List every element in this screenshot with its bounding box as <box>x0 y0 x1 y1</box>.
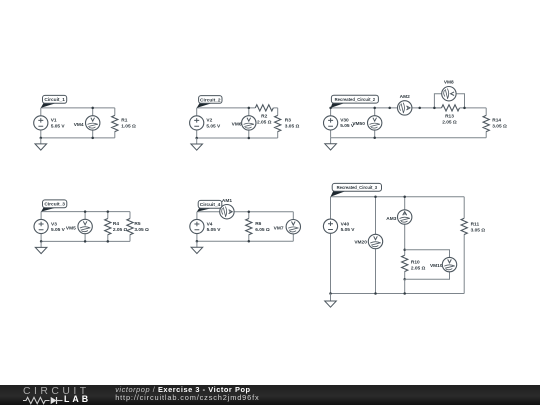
junction V2 bottom <box>195 137 198 140</box>
ground <box>325 138 337 150</box>
label Recreated_Circuit_3 callout box <box>331 191 346 197</box>
svg-text:Circuit_4: Circuit_4 <box>200 202 221 208</box>
junction V1 bottom <box>40 137 43 140</box>
wire R1 leads <box>114 108 116 138</box>
wire R13 left stub <box>434 107 441 109</box>
wire V40 leads <box>330 197 332 294</box>
svg-text:VM50: VM50 <box>352 121 365 127</box>
junction V30 top corner <box>329 107 332 110</box>
voltage source V4 <box>190 219 204 233</box>
junction R10 branch bottom <box>403 292 406 295</box>
svg-text:R2: R2 <box>261 113 267 119</box>
svg-text:VM8: VM8 <box>444 79 454 85</box>
wire R11 leads <box>463 197 465 294</box>
label Circuit_3 callout box <box>41 207 55 211</box>
resistor R5 <box>127 219 133 235</box>
svg-text:VM4: VM4 <box>74 122 84 128</box>
svg-text:VM10: VM10 <box>430 263 443 269</box>
wire R10 to bottom <box>404 279 406 293</box>
svg-text:3.05 Ω: 3.05 Ω <box>492 124 507 130</box>
junction R10 bottom <box>403 278 406 281</box>
wire R3 leads <box>277 108 279 138</box>
junction AM2 right <box>418 107 421 110</box>
wire V30 leads <box>330 108 332 138</box>
ammeter AM2 <box>398 101 412 115</box>
junction VM20 top <box>374 196 377 199</box>
voltage source V3 <box>34 219 48 233</box>
svg-text:AM3: AM3 <box>386 216 396 222</box>
wire bottom C2 <box>197 137 278 139</box>
logo resistor+diode glyph <box>23 396 65 405</box>
svg-text:Circuit_1: Circuit_1 <box>44 97 65 103</box>
wire bottom C3 <box>41 240 130 242</box>
wire top C4 <box>197 211 293 213</box>
wire bottom RC2 <box>331 137 487 139</box>
junction R6 bottom <box>248 240 251 243</box>
junction VM4 top <box>91 107 94 110</box>
svg-text:V1: V1 <box>51 118 57 124</box>
resistor R11 <box>461 218 467 234</box>
resistor R2 <box>255 105 273 111</box>
ground <box>35 241 47 253</box>
junction VM4 bottom <box>91 137 94 140</box>
svg-text:3.05 Ω: 3.05 Ω <box>471 227 486 233</box>
svg-text:VM6: VM6 <box>232 122 242 128</box>
svg-text:VM5: VM5 <box>66 225 76 231</box>
svg-text:Recreated_Circuit_2: Recreated_Circuit_2 <box>335 97 376 102</box>
voltage source V30 <box>324 116 338 130</box>
svg-text:R5: R5 <box>134 221 140 227</box>
resistor R1 <box>112 115 118 131</box>
wire top RC3 <box>331 196 465 198</box>
voltage source V40 <box>323 219 337 233</box>
svg-text:VM7: VM7 <box>274 225 284 231</box>
svg-text:R1: R1 <box>121 117 127 123</box>
voltmeter VM20 <box>368 234 382 248</box>
junction AM3 top <box>403 196 406 199</box>
junction VM5 bottom <box>84 240 87 243</box>
junction VM8 right <box>463 107 466 110</box>
svg-text:AM1: AM1 <box>222 198 232 204</box>
ammeter AM1 <box>220 205 234 219</box>
label Circuit_2 callout box <box>197 103 212 108</box>
voltage source V1 <box>34 116 48 130</box>
svg-text:R11: R11 <box>471 221 480 227</box>
svg-text:R4: R4 <box>113 221 119 227</box>
voltage source V2 <box>190 116 204 130</box>
junction VM50 top <box>373 107 376 110</box>
junction VM20 bottom <box>374 292 377 295</box>
wire V1 leads <box>40 108 42 138</box>
svg-text:V3: V3 <box>51 221 57 227</box>
voltmeter VM10 <box>442 257 456 271</box>
resistor R4 <box>105 219 111 235</box>
wire VM7 leads <box>292 212 294 242</box>
svg-text:5.05 V: 5.05 V <box>206 124 221 130</box>
wire bottom C1 <box>41 137 115 139</box>
svg-text:1.05 Ω: 1.05 Ω <box>121 124 136 130</box>
junction VM6 top <box>248 107 251 110</box>
resistor R6 <box>246 219 252 235</box>
footer text <box>115 386 259 402</box>
svg-text:3.05 Ω: 3.05 Ω <box>134 227 149 233</box>
junction VM50 bottom <box>373 137 376 140</box>
svg-text:AM2: AM2 <box>400 94 410 100</box>
wire R10 leads <box>404 250 406 279</box>
ammeter AM3 <box>398 210 412 224</box>
junction V40 bottom <box>329 292 332 295</box>
svg-text:R13: R13 <box>445 113 454 119</box>
wire AM3 leads <box>404 197 406 250</box>
junction VM5 top <box>84 210 87 213</box>
svg-text:2.05 Ω: 2.05 Ω <box>411 265 426 271</box>
wire R6 leads <box>248 212 250 242</box>
junction AM2 left <box>388 107 391 110</box>
wire VM6 leads <box>248 108 250 138</box>
svg-text:V40: V40 <box>341 221 350 227</box>
voltmeter VM4 <box>86 116 100 130</box>
svg-text:Circuit_3: Circuit_3 <box>44 202 65 208</box>
label Recreated_Circuit_2 callout box <box>331 103 345 108</box>
junction R4 bottom <box>107 240 110 243</box>
wire R14 leads <box>485 108 487 138</box>
junction V3 bottom <box>40 240 43 243</box>
wire VM10 branch <box>405 250 450 279</box>
ground <box>325 294 337 308</box>
ground <box>191 241 203 253</box>
wire VM8 branch <box>434 94 464 108</box>
svg-text:R10: R10 <box>411 259 420 265</box>
wire V2 leads <box>196 108 198 138</box>
wire VM4 leads <box>92 108 94 138</box>
voltmeter VM7 <box>286 220 300 234</box>
junction R4 top <box>107 210 110 213</box>
resistor R14 <box>483 115 489 131</box>
svg-text:5.05 V: 5.05 V <box>51 124 66 130</box>
svg-text:V2: V2 <box>206 118 212 124</box>
wire bottom RC3 <box>331 293 465 295</box>
svg-text:5.05 V: 5.05 V <box>207 227 222 233</box>
voltmeter VM5 <box>78 219 92 233</box>
wire bottom C4 <box>197 240 293 242</box>
wire top RC2 <box>331 107 487 109</box>
resistor R10 <box>402 255 408 271</box>
svg-text:2.05 Ω: 2.05 Ω <box>257 120 272 126</box>
svg-text:V30: V30 <box>340 118 349 124</box>
voltmeter VM8 <box>442 87 456 101</box>
svg-text:2.05 Ω: 2.05 Ω <box>113 227 128 233</box>
wire V4 leads <box>196 212 198 242</box>
label Circuit_1 callout box <box>41 103 56 108</box>
wire AM2 leads <box>390 107 420 109</box>
resistor R13 <box>442 105 460 111</box>
junction R10 top <box>403 249 406 252</box>
svg-text:Recreated_Circuit_3: Recreated_Circuit_3 <box>337 185 378 190</box>
svg-text:Circuit_2: Circuit_2 <box>200 97 221 103</box>
svg-text:R3: R3 <box>285 117 291 123</box>
wire R5 leads <box>129 212 131 242</box>
svg-text:6.05 Ω: 6.05 Ω <box>255 227 270 233</box>
label Circuit_4 callout box <box>197 208 211 212</box>
junction VM6 bottom <box>248 137 251 140</box>
junction R6 top <box>248 210 251 213</box>
svg-text:R14: R14 <box>492 117 501 123</box>
wire top C2 <box>197 107 278 109</box>
junction VM8 left <box>433 107 436 110</box>
footer bar <box>0 385 540 405</box>
ground <box>35 138 47 150</box>
svg-text:5.05 V: 5.05 V <box>51 227 66 233</box>
voltmeter VM6 <box>242 116 256 130</box>
wire VM20 leads <box>375 197 377 294</box>
wire VM5 leads <box>84 212 86 242</box>
voltmeter VM50 <box>368 116 382 130</box>
CircuitLab logo <box>23 387 93 405</box>
wire V3 leads <box>40 212 42 242</box>
svg-text:5.05 V: 5.05 V <box>341 227 356 233</box>
wire VM50 leads <box>374 108 376 138</box>
svg-text:3.05 Ω: 3.05 Ω <box>285 124 300 130</box>
junction V4 bottom <box>196 240 199 243</box>
svg-text:2.05 Ω: 2.05 Ω <box>442 120 457 126</box>
wire top C3 <box>41 211 130 213</box>
wire top C1 <box>41 107 115 109</box>
svg-text:V4: V4 <box>207 221 213 227</box>
svg-text:R6: R6 <box>255 221 261 227</box>
wire R4 leads <box>107 212 109 242</box>
resistor R3 <box>275 115 281 131</box>
ground <box>191 138 203 150</box>
svg-text:VM20: VM20 <box>354 240 367 246</box>
